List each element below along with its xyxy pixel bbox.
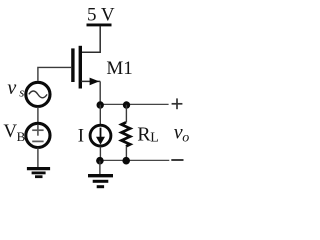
label + output	[172, 98, 183, 109]
node dot source/current-source	[97, 101, 104, 108]
resistor RL	[121, 105, 130, 161]
svg-text:R: R	[137, 123, 151, 145]
source vs (AC)	[26, 82, 50, 106]
wire current source to bottom row	[99, 147, 101, 161]
ground left	[27, 169, 50, 177]
svg-text:M1: M1	[106, 58, 132, 79]
svg-text:V: V	[3, 121, 17, 142]
source VB (DC)	[26, 123, 50, 147]
svg-text:s: s	[19, 85, 24, 100]
svg-text:v: v	[7, 77, 16, 99]
svg-text:5 V: 5 V	[87, 5, 115, 26]
power rail bar	[87, 23, 112, 26]
label - output	[171, 159, 183, 161]
svg-text:L: L	[150, 131, 159, 146]
wire node to ground bottom	[99, 161, 101, 175]
svg-text:I: I	[78, 125, 84, 146]
node dot bottom current-source	[96, 157, 104, 165]
wire VB to ground	[37, 148, 39, 169]
node dot resistor top	[123, 101, 130, 108]
wire output bottom row	[100, 159, 169, 161]
node dot resistor bottom	[122, 157, 130, 165]
current source I	[90, 125, 111, 146]
svg-text:o: o	[182, 131, 189, 146]
wire M1 source down to node	[99, 81, 101, 104]
wire rail to drain	[81, 26, 101, 52]
svg-text:B: B	[17, 129, 26, 144]
wire vs to VB	[37, 107, 39, 123]
transistor M1	[73, 46, 100, 89]
wire gate	[38, 67, 71, 80]
ground bottom	[88, 176, 113, 187]
wire output top row	[100, 103, 168, 105]
wire node to current source	[99, 105, 101, 125]
